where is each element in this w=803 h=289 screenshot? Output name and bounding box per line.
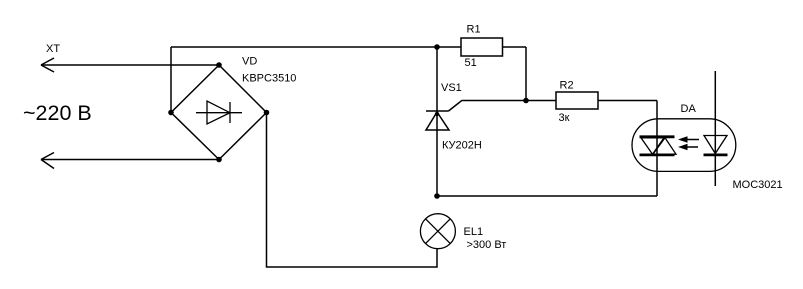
optocoupler triac symbol <box>640 137 677 155</box>
svg-text:51: 51 <box>465 57 477 69</box>
node junction at VS1 anode branch <box>434 44 440 50</box>
wire R1 right to vertical drop <box>503 47 527 101</box>
bridge rectifier VD diamond <box>171 65 267 160</box>
svg-text:~220 В: ~220 В <box>23 101 92 125</box>
wire top bus to R1 <box>171 46 461 48</box>
wire bottom return from diamond right corner <box>267 113 438 268</box>
resistor R2 <box>556 92 598 109</box>
wire top phase arrow <box>41 58 219 72</box>
svg-text:VS1: VS1 <box>441 82 462 94</box>
node: thyristor apex dot <box>435 112 439 116</box>
wire R2 right to optocoupler <box>598 100 657 102</box>
svg-text:KBPC3510: KBPC3510 <box>242 73 296 85</box>
svg-text:КУ202Н: КУ202Н <box>442 140 482 152</box>
resistor R1 <box>461 38 503 56</box>
node: diamond right corner <box>264 110 270 116</box>
optocoupler DA body <box>632 119 736 172</box>
wire bottom phase arrow <box>41 153 219 169</box>
svg-text:EL1: EL1 <box>464 226 484 238</box>
svg-text:R1: R1 <box>467 24 481 36</box>
node: diamond left corner <box>168 110 174 116</box>
node: diamond top corner <box>216 62 222 68</box>
svg-text:DA: DA <box>681 103 697 115</box>
wire thyristor gate <box>449 101 557 112</box>
optocoupler light arrow upper <box>678 136 699 142</box>
svg-text:XT: XT <box>46 43 60 55</box>
optocoupler LED lead vertical <box>714 71 716 186</box>
lamp EL1 <box>420 214 455 249</box>
optocoupler triac lead vertical <box>656 101 658 197</box>
bridge rectifier VD internal diode <box>196 101 242 124</box>
svg-text:MOC3021: MOC3021 <box>733 179 783 191</box>
wire lamp junction to optocoupler triac bottom <box>437 195 657 197</box>
wire from diamond left corner up to top bus <box>170 47 172 113</box>
svg-text:R2: R2 <box>560 80 574 92</box>
svg-text:3к: 3к <box>559 112 570 124</box>
node junction R1/gate/R2 <box>523 98 529 104</box>
svg-text:>300 Вт: >300 Вт <box>467 239 507 251</box>
thyristor VS1 <box>426 111 449 196</box>
node junction at lamp top <box>434 193 440 199</box>
svg-text:VD: VD <box>242 56 257 68</box>
optocoupler light arrow lower <box>678 144 698 150</box>
node: diamond bottom corner <box>216 157 222 163</box>
wire VS1 anode vertical <box>436 47 438 111</box>
optocoupler LED symbol <box>704 136 728 155</box>
